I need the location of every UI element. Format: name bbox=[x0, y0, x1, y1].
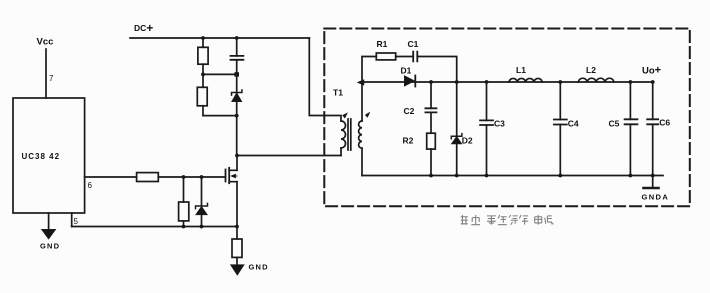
node bottom rail at C6 bbox=[651, 174, 655, 178]
node snubber bottom bbox=[235, 114, 239, 118]
zener diode gate clamp bbox=[196, 203, 208, 208]
resistor snubber lower bbox=[197, 87, 207, 106]
capacitor C6 bbox=[647, 119, 658, 124]
resistor gate series bbox=[137, 173, 159, 182]
wire gate node to zener bbox=[201, 177, 203, 206]
wire D2 to bottom rail bbox=[456, 144, 458, 176]
svg-text:DC+: DC+ bbox=[134, 21, 153, 35]
wire secondary top rail bbox=[362, 81, 653, 83]
node bottom wire B bbox=[200, 225, 204, 229]
wire gate resistor to Q1 gate bbox=[158, 176, 225, 178]
resistor current sense bbox=[232, 239, 242, 257]
zener diode D2 bbox=[451, 134, 462, 139]
node rail at C4 branch bbox=[558, 80, 562, 84]
wire zener to bottom wire bbox=[201, 215, 203, 227]
svg-text:R2: R2 bbox=[403, 136, 414, 146]
node drain bbox=[235, 154, 239, 158]
wire C2 branch top bbox=[430, 82, 432, 108]
wire Q1 source bbox=[236, 182, 238, 227]
node bottom rail at D2 bbox=[455, 174, 459, 178]
svg-text:C3: C3 bbox=[494, 119, 505, 129]
node rail at C6 branch bbox=[651, 80, 655, 84]
node rail at D2 branch bbox=[455, 80, 459, 84]
wire C5 branch top bbox=[629, 82, 631, 119]
wire snubber middle junction bbox=[203, 73, 237, 75]
capacitor C5 bbox=[625, 119, 638, 124]
wire snubber left middle bbox=[202, 64, 204, 87]
wire snubber bottom junction bbox=[203, 115, 237, 117]
wire C3 to bottom rail bbox=[486, 125, 488, 176]
svg-text:D1: D1 bbox=[401, 66, 412, 76]
wire pulldown resistor to bottom wire bbox=[183, 221, 185, 227]
resistor R2 bbox=[427, 133, 436, 149]
wire U1 ground stub bbox=[48, 213, 50, 230]
wire primary bottom lead bbox=[340, 148, 342, 156]
wire secondary bottom rail bbox=[362, 175, 663, 177]
node bottom rail at C3 bbox=[485, 174, 489, 178]
wire D2 branch top bbox=[456, 82, 458, 136]
wire snubber cap top bbox=[236, 38, 238, 56]
node rail at C2 branch bbox=[429, 80, 433, 84]
wire R1 to C1 bbox=[396, 56, 414, 58]
wire Vcc to pin 7 of U1 bbox=[45, 49, 47, 98]
resistor gate pulldown bbox=[179, 202, 189, 221]
resistor R1 bbox=[376, 53, 395, 60]
node bottom rail at C5 bbox=[629, 174, 633, 178]
zener diode snubber bbox=[232, 90, 242, 95]
wire drain node to transformer primary bottom bbox=[237, 155, 341, 157]
wire snubber cap to zener bbox=[236, 60, 238, 93]
wire C6 branch top bbox=[652, 82, 654, 119]
capacitor snubber bbox=[231, 56, 244, 60]
svg-text:5: 5 bbox=[74, 217, 79, 226]
wire ground A stub bbox=[652, 176, 654, 188]
svg-text:GND: GND bbox=[40, 242, 60, 251]
capacitor C1 bbox=[413, 52, 417, 62]
capacitor C2 bbox=[425, 108, 436, 112]
svg-text:R1: R1 bbox=[377, 39, 388, 49]
transformer core bbox=[348, 119, 351, 150]
diode D1 bbox=[405, 76, 415, 86]
wire R2 to bottom rail bbox=[430, 149, 432, 175]
wire C2 to R2 bbox=[430, 112, 432, 133]
transformer T1 secondary winding bbox=[359, 121, 362, 148]
wire DC rail down to transformer primary bbox=[309, 38, 341, 121]
svg-text:GND: GND bbox=[249, 263, 269, 272]
wire pin5 run to source node bbox=[72, 226, 237, 228]
svg-text:GNDA: GNDA bbox=[642, 193, 670, 202]
svg-text:7: 7 bbox=[49, 74, 54, 83]
svg-text:C2: C2 bbox=[404, 106, 415, 116]
node bottom rail at C2R2 bbox=[429, 174, 433, 178]
svg-text:C1: C1 bbox=[408, 39, 419, 49]
inductor L1 bbox=[509, 78, 542, 82]
wire C3 branch top bbox=[486, 82, 488, 120]
capacitor C4 bbox=[554, 120, 567, 125]
svg-text:6: 6 bbox=[88, 181, 93, 190]
svg-text:L2: L2 bbox=[586, 65, 596, 75]
ground symbol source bbox=[231, 265, 244, 275]
transistor Q1 MOSFET bbox=[226, 168, 238, 183]
node snubber junction right bbox=[234, 72, 239, 76]
svg-text:C6: C6 bbox=[659, 118, 670, 128]
svg-text:Vcc: Vcc bbox=[37, 37, 54, 48]
dashed box output filter bbox=[324, 29, 690, 207]
wire Q1 drain bbox=[236, 156, 238, 171]
resistor snubber upper bbox=[198, 47, 208, 64]
wire C5 to bottom rail bbox=[629, 124, 631, 175]
svg-text:Uo+: Uo+ bbox=[642, 65, 661, 77]
svg-text:L1: L1 bbox=[516, 65, 526, 75]
wire C4 to bottom rail bbox=[559, 125, 561, 176]
node rail at C3 branch bbox=[485, 80, 489, 84]
svg-text:UC38 42: UC38 42 bbox=[22, 152, 61, 161]
caption 输出整流滤波电路 (drawn glyphs) bbox=[461, 215, 554, 225]
node gate wire A bbox=[182, 175, 186, 179]
wire gate node to pulldown resistor bbox=[183, 177, 185, 202]
node DC rail at snubber R bbox=[201, 36, 205, 40]
wire secondary bottom lead bbox=[361, 148, 363, 175]
capacitor C3 bbox=[480, 120, 493, 125]
wire source node to sense resistor bbox=[236, 227, 238, 240]
wire snubber to drain node bbox=[236, 102, 238, 156]
transformer T1 primary winding bbox=[341, 121, 346, 148]
arrowhead secondary rail start bbox=[357, 79, 364, 85]
node bottom wire A bbox=[182, 225, 186, 229]
wire R1C1 branch left riser bbox=[362, 57, 376, 83]
wire C1 to right riser bbox=[417, 57, 456, 83]
node DC rail at snubber C bbox=[235, 36, 239, 40]
wire sense resistor to ground bbox=[236, 257, 238, 265]
wire C4 branch top bbox=[559, 82, 561, 120]
node gate wire B bbox=[200, 175, 204, 179]
polarity arrow secondary bbox=[365, 112, 371, 118]
node source junction bbox=[235, 225, 239, 229]
wire secondary top lead bbox=[361, 82, 363, 121]
ground symbol A bbox=[644, 187, 659, 190]
wire pin6 to gate resistor bbox=[85, 176, 137, 178]
IC U1 UC3842 box bbox=[13, 98, 85, 213]
polarity arrow primary bbox=[342, 112, 348, 118]
node rail at C5 branch bbox=[629, 80, 633, 84]
wire snubber left bottom bbox=[202, 106, 204, 116]
wire snubber left branch top bbox=[202, 38, 204, 47]
wire DC+ rail bbox=[130, 37, 309, 39]
svg-text:T1: T1 bbox=[333, 88, 343, 98]
wire C6 to bottom rail bbox=[652, 124, 654, 175]
pin 5 step from U1 bbox=[71, 213, 73, 227]
node bottom rail at C4 bbox=[558, 174, 562, 178]
svg-text:C4: C4 bbox=[568, 119, 579, 129]
svg-text:D2: D2 bbox=[462, 136, 473, 146]
svg-text:C5: C5 bbox=[609, 119, 620, 129]
inductor L2 bbox=[578, 78, 614, 82]
ground symbol below U1 bbox=[42, 230, 56, 239]
node snubber junction left bbox=[201, 73, 205, 77]
